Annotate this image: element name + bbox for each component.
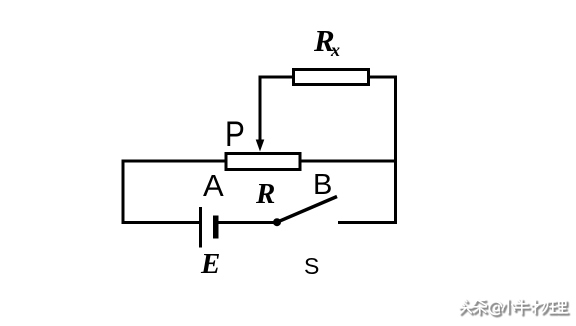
svg-text:A: A: [203, 168, 224, 203]
wiper arrowhead P: [256, 140, 265, 152]
wire battery to switch pivot: [219, 221, 278, 224]
switch S blade (open): [277, 197, 337, 223]
wire right vertical rail lower part: [338, 161, 396, 223]
svg-text:P: P: [225, 113, 245, 153]
wire top left: left rail top to pot left end: [123, 161, 225, 223]
svg-text:S: S: [304, 253, 319, 279]
battery E: short thick negative plate: [213, 216, 219, 239]
switch S pivot node (dot): [273, 218, 281, 226]
potentiometer R (box): [226, 154, 300, 170]
svg-text:E: E: [200, 248, 220, 280]
label Rx: [313, 23, 340, 60]
wire from Rx right end to right vertical rail: [370, 77, 396, 161]
svg-text:R: R: [255, 178, 275, 210]
wire from Rx left end down to wiper arrow: [260, 77, 292, 141]
svg-text:B: B: [313, 169, 332, 201]
svg-text:x: x: [330, 40, 340, 60]
battery E: long thin positive plate: [199, 207, 202, 248]
resistor Rx (box): [294, 70, 369, 85]
wire from pot right end to right rail: [302, 160, 396, 163]
